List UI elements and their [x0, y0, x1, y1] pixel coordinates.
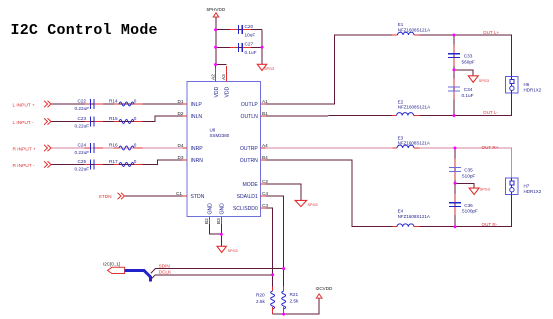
junction bottom rail	[282, 313, 285, 316]
svg-text:0.1uF: 0.1uF	[462, 93, 474, 98]
svg-text:D3: D3	[178, 155, 184, 160]
svg-text:SPG3: SPG3	[264, 67, 274, 71]
svg-text:0: 0	[134, 143, 137, 148]
svg-text:SDIN: SDIN	[159, 263, 170, 268]
svg-text:B2: B2	[204, 218, 209, 224]
wire E3 to OUT R+ (pale)	[420, 148, 512, 178]
IC U8 reference and value labels	[210, 127, 230, 138]
svg-text:INRN: INRN	[191, 158, 204, 164]
svg-text:STDN: STDN	[99, 194, 113, 200]
svg-text:SPG3: SPG3	[308, 203, 318, 207]
wire SDIN	[151, 269, 156, 274]
wire E1 to OUT L+	[420, 35, 512, 76]
svg-text:NFZ1608S121A: NFZ1608S121A	[398, 214, 430, 219]
port L INPUT-	[13, 118, 52, 126]
wire R INPUT- row with jog	[51, 160, 183, 165]
svg-text:A4: A4	[262, 143, 268, 148]
resistor R16	[109, 143, 137, 150]
svg-text:0.22uF: 0.22uF	[75, 150, 90, 155]
wire DCLK	[151, 275, 156, 280]
wire C20 row	[216, 29, 262, 31]
svg-text:0: 0	[134, 116, 137, 121]
svg-text:R21: R21	[290, 292, 299, 297]
svg-text:A1: A1	[262, 99, 268, 104]
svg-text:C25: C25	[78, 159, 87, 164]
svg-text:OUTRN: OUTRN	[240, 158, 258, 164]
wire E2 to OUT L-	[420, 93, 512, 116]
wire branch to ground G4	[454, 70, 473, 76]
GND pins red stubs	[209, 217, 211, 225]
svg-text:I2C Control Mode: I2C Control Mode	[11, 22, 158, 39]
svg-text:E4: E4	[398, 209, 404, 214]
svg-text:0.22uF: 0.22uF	[75, 106, 90, 111]
svg-text:OUT L+: OUT L+	[483, 30, 499, 35]
bus port I2C[0..1]	[103, 261, 125, 273]
svg-text:C22: C22	[78, 99, 87, 104]
red stubs C20 C27	[230, 30, 251, 48]
ground SPG3 right top	[468, 76, 489, 83]
svg-text:C36: C36	[464, 203, 473, 208]
junction dots top	[214, 28, 217, 31]
capacitor C36	[449, 203, 478, 214]
svg-text:2.5k: 2.5k	[290, 298, 300, 303]
svg-text:HDR1X2: HDR1X2	[524, 189, 542, 194]
svg-text:A2: A2	[210, 74, 215, 80]
svg-text:OUT L-: OUT L-	[483, 110, 498, 115]
ground SPG3 mode	[295, 200, 318, 207]
wire L INPUT+ row	[51, 103, 183, 105]
port L INPUT+	[13, 101, 52, 109]
svg-text:510pF: 510pF	[462, 173, 475, 178]
svg-text:OUT R+: OUT R+	[482, 145, 499, 150]
wire R INPUT+ row (pale)	[51, 147, 183, 149]
ferrite bead E2	[392, 99, 430, 115]
svg-text:SSM2380: SSM2380	[210, 133, 230, 138]
svg-text:VDD: VDD	[225, 86, 231, 97]
port R INPUT+	[13, 145, 52, 153]
svg-text:B1: B1	[262, 111, 268, 116]
svg-text:C20: C20	[245, 24, 254, 29]
junction nodes C35/C36 column	[454, 147, 457, 150]
svg-text:0.22uF: 0.22uF	[75, 123, 90, 128]
svg-text:0.1uF: 0.1uF	[245, 50, 257, 55]
svg-text:OUTLN: OUTLN	[241, 114, 259, 120]
wire STDN	[125, 195, 183, 197]
svg-text:STDN: STDN	[191, 194, 205, 200]
resistor R17	[109, 159, 137, 166]
ground SPG3 top	[257, 64, 274, 71]
capacitor C25	[75, 159, 95, 171]
svg-text:OUT R-: OUT R-	[482, 222, 498, 227]
wire L INPUT- row with jog	[51, 116, 183, 122]
IC U8 body	[187, 82, 261, 217]
red stubs VDD pins	[215, 67, 217, 82]
svg-text:SCL\SDD0: SCL\SDD0	[233, 206, 258, 212]
ferrite bead E4	[393, 209, 430, 227]
svg-text:L INPUT +: L INPUT +	[13, 102, 35, 108]
svg-text:A3: A3	[221, 74, 226, 80]
svg-text:GND: GND	[208, 203, 214, 215]
svg-text:C35: C35	[464, 168, 473, 173]
capacitor C27	[239, 42, 257, 56]
svg-text:D4: D4	[178, 143, 184, 148]
wire right vertical to ground	[261, 30, 263, 64]
svg-text:C27: C27	[245, 42, 254, 47]
svg-text:R20: R20	[256, 293, 265, 298]
wire MODE to ground	[266, 184, 302, 200]
svg-text:INLP: INLP	[191, 102, 203, 108]
svg-text:B3: B3	[216, 218, 221, 224]
svg-text:NFZ1608S121A: NFZ1608S121A	[398, 27, 430, 32]
svg-text:B4: B4	[262, 155, 268, 160]
svg-text:5100pF: 5100pF	[462, 209, 478, 214]
svg-text:R INPUT +: R INPUT +	[13, 146, 36, 152]
svg-text:NFZ1608S121A: NFZ1608S121A	[398, 105, 430, 110]
resistor R20	[256, 287, 275, 315]
resistor R14	[109, 99, 137, 106]
svg-text:D2: D2	[178, 111, 184, 116]
svg-text:SPG3: SPG3	[228, 249, 238, 253]
svg-text:OUTRP: OUTRP	[240, 146, 258, 152]
red stubs C33 C34	[453, 45, 455, 100]
wire VDD stem	[216, 17, 227, 65]
svg-text:I2C[0..1]: I2C[0..1]	[103, 261, 120, 266]
wire GND pins to ground	[210, 224, 222, 234]
wire SDA vertical	[266, 196, 284, 287]
wire bottom to I2CVDD	[273, 298, 320, 314]
power 5PHVDD	[207, 7, 226, 17]
red stubs C35 C36	[454, 159, 456, 216]
wire C27 row	[216, 46, 262, 48]
svg-text:MODE: MODE	[243, 182, 259, 188]
svg-text:C24: C24	[78, 143, 87, 148]
ferrite bead E1	[392, 22, 430, 35]
svg-text:C33: C33	[464, 54, 473, 59]
ground SPG3 right bottom	[469, 187, 490, 194]
svg-text:R16: R16	[109, 143, 118, 148]
svg-text:C34: C34	[464, 87, 473, 92]
svg-text:INRP: INRP	[191, 146, 204, 152]
svg-text:C4: C4	[262, 191, 268, 196]
connector H6	[505, 76, 541, 93]
svg-text:R17: R17	[109, 159, 118, 164]
svg-text:SDA\LD1: SDA\LD1	[237, 194, 258, 200]
junction GND pins	[220, 233, 223, 236]
resistor R21	[282, 287, 299, 315]
svg-text:R15: R15	[109, 116, 118, 121]
capacitor C34	[448, 87, 474, 98]
capacitor C33	[448, 54, 475, 65]
svg-text:C1: C1	[176, 191, 182, 196]
svg-text:OUTLP: OUTLP	[241, 102, 259, 108]
svg-text:5PHVDD: 5PHVDD	[207, 7, 226, 12]
svg-text:C3: C3	[262, 203, 268, 208]
wire branch to ground G5	[455, 183, 474, 188]
svg-text:2.5k: 2.5k	[256, 299, 266, 304]
svg-text:H7: H7	[524, 183, 530, 188]
connector H7	[505, 178, 541, 195]
svg-text:0.22uF: 0.22uF	[75, 166, 90, 171]
svg-text:0: 0	[134, 159, 137, 164]
junction SDIN/SDA and DCLK/SCL	[282, 267, 285, 270]
wire OUTRP to E3 row (pale)	[266, 147, 393, 149]
bus I2C	[125, 271, 151, 282]
resistor R15	[109, 116, 137, 123]
svg-text:R INPUT -: R INPUT -	[13, 163, 35, 169]
svg-text:SPG3: SPG3	[479, 79, 489, 83]
svg-text:SPG3: SPG3	[480, 187, 490, 191]
capacitor C24	[75, 143, 95, 155]
wire SCL vertical	[266, 208, 273, 287]
svg-text:L INPUT -: L INPUT -	[13, 120, 34, 126]
svg-text:NFZ1608S121A: NFZ1608S121A	[398, 141, 430, 146]
wire C33/C34 column	[453, 35, 455, 116]
wire C35/C36 column	[454, 148, 456, 227]
svg-text:E1: E1	[398, 22, 404, 27]
capacitor C35	[449, 168, 476, 179]
svg-text:INLN: INLN	[191, 114, 203, 120]
red pin stubs left rows	[85, 104, 188, 196]
svg-text:0: 0	[134, 99, 137, 104]
red stubs right pins	[261, 104, 266, 208]
wire OUTLP to E1 row	[266, 35, 393, 104]
junction nodes C33/C34 column	[453, 34, 456, 37]
svg-text:HDR1X2: HDR1X2	[524, 88, 542, 93]
wire OUTLN to E2	[266, 115, 393, 118]
svg-text:D1: D1	[178, 99, 184, 104]
ferrite bead E3	[393, 135, 430, 148]
power I2CVDD	[316, 286, 334, 298]
svg-text:560pF: 560pF	[462, 59, 475, 64]
wire E4 to OUT R-	[420, 194, 512, 226]
port R INPUT-	[13, 161, 52, 169]
svg-text:VDD: VDD	[214, 86, 220, 97]
svg-text:U8: U8	[210, 127, 216, 132]
ground SPG3 bottom	[217, 246, 238, 253]
svg-text:H6: H6	[524, 82, 530, 87]
svg-text:R14: R14	[109, 99, 118, 104]
capacitor C20	[239, 24, 256, 38]
svg-text:I2CVDD: I2CVDD	[316, 286, 334, 291]
svg-text:C2: C2	[262, 179, 268, 184]
wire OUTRN down and to E4	[266, 160, 393, 227]
svg-text:DCLK: DCLK	[159, 270, 172, 275]
port STDN	[99, 193, 125, 200]
svg-text:10uF: 10uF	[245, 33, 256, 38]
capacitor C23	[75, 116, 95, 128]
capacitor C22	[75, 99, 95, 111]
svg-text:GND: GND	[219, 203, 225, 215]
svg-text:C23: C23	[78, 116, 87, 121]
